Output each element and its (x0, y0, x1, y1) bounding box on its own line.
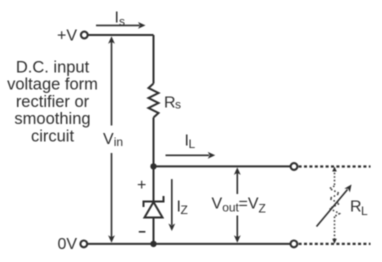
svg-text:+: + (137, 177, 146, 194)
svg-text:V: V (212, 196, 223, 213)
svg-text:circuit: circuit (31, 128, 75, 146)
svg-text:voltage form: voltage form (7, 76, 98, 94)
svg-text:Z: Z (259, 201, 266, 215)
svg-text:V: V (103, 131, 114, 148)
svg-text:R: R (164, 94, 176, 111)
svg-text:L: L (361, 204, 368, 218)
svg-text:rectifier or: rectifier or (16, 93, 90, 111)
svg-text:=V: =V (239, 196, 259, 213)
svg-text:0V: 0V (58, 236, 78, 253)
svg-text:s: s (119, 15, 125, 29)
svg-text:R: R (350, 199, 362, 216)
svg-text:+V: +V (57, 28, 77, 45)
svg-text:smoothing: smoothing (14, 110, 90, 128)
svg-text:D.C. input: D.C. input (16, 58, 90, 76)
svg-text:out: out (222, 201, 239, 215)
svg-text:s: s (175, 97, 181, 111)
svg-text:L: L (189, 137, 196, 151)
svg-text:in: in (114, 135, 123, 149)
svg-text:Z: Z (181, 203, 188, 217)
